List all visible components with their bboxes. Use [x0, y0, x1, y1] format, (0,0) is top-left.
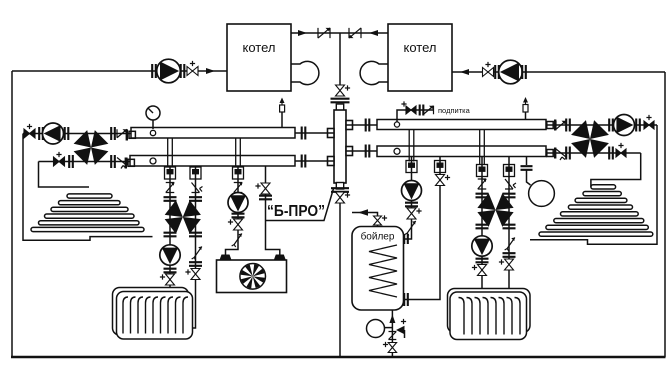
floor heating coil right row 3 [575, 198, 627, 202]
pipe drop fancoil return line [266, 166, 280, 255]
pipe drop DHW return line [404, 157, 441, 300]
floor heating coil right row 8 [539, 232, 653, 236]
valve radiator 1 supply [166, 274, 175, 285]
pipe separator riser [339, 33, 341, 85]
floor heating coil left row 6 [31, 227, 144, 231]
flow arrow from right boiler [369, 30, 378, 36]
flange tank upper port [404, 234, 408, 244]
right manifold end fitting supply [547, 122, 553, 129]
right manifold end fitting return [547, 150, 553, 157]
make-up check valve [424, 106, 434, 115]
make-up valve [406, 106, 416, 114]
floor heating coil right row 6 [554, 219, 644, 223]
mixing valve radiator circuit 1 [165, 200, 183, 217]
burner loop right boiler [360, 61, 388, 84]
svg-text:“Б-ПРО”: “Б-ПРО” [267, 203, 325, 220]
thermometer port on right manifold return [394, 148, 400, 154]
cold water check valve [389, 332, 397, 340]
flange [366, 119, 370, 132]
radiator 1 body [117, 292, 193, 340]
pipe drop supply to DHW circuit [409, 130, 414, 162]
pipe drop supply to radiator circuit 1 [168, 138, 173, 168]
flange [521, 166, 533, 170]
radiator 1 back outline [113, 288, 189, 336]
flange [39, 127, 43, 140]
flange [189, 197, 202, 201]
flange [522, 65, 526, 79]
pressure gauge on left manifold [146, 106, 160, 120]
pipe left return riser [11, 71, 13, 357]
DHW tank (boiler) body [352, 227, 404, 311]
check valve left group supply [117, 129, 127, 138]
valve radiator 2 supply [478, 265, 487, 276]
pump P8 radiator circuit 2 [472, 236, 492, 256]
flange [181, 64, 185, 78]
flange [566, 147, 570, 160]
pipe drop radiator circuit 1 return line [193, 166, 196, 328]
pipe to expansion vessel [527, 170, 531, 185]
left manifold supply bar [131, 128, 295, 139]
pipe drop radiator circuit 2 return line [508, 157, 510, 290]
pipe separator to left manifold supply [295, 132, 334, 134]
stub to heating expansion vessel [526, 157, 528, 166]
DHW outlet arrow line [352, 213, 378, 227]
pipe top-left boiler return [12, 70, 227, 72]
flange [69, 155, 73, 168]
valve DHW return [436, 175, 445, 186]
expansion vessel heating [529, 181, 555, 207]
flange [503, 225, 516, 229]
pipe drop fancoil supply line [226, 166, 239, 255]
flange [476, 259, 489, 263]
floor heating coil left row 5 [39, 221, 140, 225]
fan symbol [240, 264, 266, 290]
left manifold return bar [130, 156, 295, 167]
mixing valve left group [74, 130, 91, 147]
flange [152, 64, 156, 78]
pipe left boiler supply [291, 32, 340, 34]
pipe separator to right manifold return [346, 150, 377, 152]
flange [259, 196, 272, 200]
right manifold supply bar [377, 120, 546, 130]
valve left group supply [24, 129, 35, 138]
valve left group return [54, 157, 65, 166]
flow arrow from left boiler [298, 30, 307, 36]
pipe floor coil left inner inlet [39, 162, 90, 188]
flange [503, 253, 516, 257]
mixing valve right group [571, 120, 590, 139]
pipe separator to left manifold return [295, 160, 334, 162]
safety relief valve cold water [396, 326, 405, 334]
union fitting fancoil supply [233, 167, 244, 179]
pump P6 floor-heating right [614, 115, 635, 136]
pipe drop supply to radiator circuit 2 [480, 130, 485, 166]
valve radiator 2 return [505, 259, 514, 270]
pump P4 radiator circuit 1 [160, 245, 180, 265]
flange [189, 233, 202, 237]
flange separator top [331, 99, 350, 103]
flange [636, 119, 640, 132]
flange tank lower port [404, 293, 408, 306]
balancing valve left group return [117, 158, 127, 169]
valve on boiler-left return [187, 67, 198, 76]
pipe floor coil left outer line [23, 134, 153, 241]
flange [302, 127, 306, 140]
left manifold end fitting supply [129, 131, 135, 138]
flange [189, 262, 202, 266]
radiator 2 back outline [448, 289, 531, 333]
flange [366, 145, 370, 158]
drain valve radiator 2 return [505, 238, 515, 252]
union fitting radiator circuit return [190, 167, 201, 179]
pipe right group return row [546, 152, 641, 154]
separator left port block lower [328, 157, 335, 166]
air vent on right manifold [525, 112, 527, 120]
check valve radiator 2 supply [478, 179, 487, 189]
flange [164, 233, 177, 237]
flange [566, 119, 570, 132]
floor heating coil right row 2 [583, 192, 621, 196]
fancoil unit box [217, 260, 287, 293]
hydraulic separator bottom neck [336, 183, 343, 190]
separator left port block upper [328, 129, 335, 138]
hydraulic separator top neck [336, 104, 343, 111]
svg-text:подпитка: подпитка [438, 106, 471, 115]
flange [476, 225, 489, 229]
pipe separator drain to bottom return [339, 203, 341, 358]
pump P3 floor-heating left [43, 123, 64, 144]
balancing valve radiator circuit return [192, 183, 203, 193]
cold water shutoff valve [388, 343, 396, 353]
check valve right group supply [556, 121, 566, 130]
floor heating coil right row 5 [561, 212, 639, 216]
flow arrow into left boiler [206, 68, 215, 74]
union fitting radiator circuit supply [165, 167, 176, 179]
floor heating coil left row 2 [59, 201, 121, 205]
flange [405, 203, 418, 207]
check valve left boiler supply [318, 28, 330, 38]
floor heating coil left row 4 [45, 214, 135, 218]
pipe drop supply to fancoil circuit [236, 138, 241, 168]
pipe floor coil right inlet [591, 153, 641, 187]
make-up line port [394, 122, 399, 127]
thermometer port on left manifold return [150, 158, 156, 164]
floor heating coil left row 1 [67, 194, 112, 198]
valve fancoil supply [234, 219, 243, 230]
flange [111, 155, 115, 168]
pipe drop radiator circuit 2 supply line [481, 157, 483, 293]
pipe drop radiator circuit 1 supply line [169, 166, 171, 292]
cold water flow arrow into tank [389, 315, 395, 324]
pipe right return riser [664, 72, 666, 357]
valve fancoil return top [261, 183, 270, 194]
pipe bottom common return (thick) [11, 356, 666, 359]
valve DHW supply [407, 208, 416, 219]
drain valve radiator circuit return [192, 247, 202, 261]
flange [495, 65, 499, 79]
flange [164, 269, 177, 273]
pipe drop DHW supply line [404, 157, 412, 240]
svg-text:котел: котел [404, 40, 437, 55]
flange [111, 127, 115, 140]
floor heating coil right row 4 [568, 205, 632, 209]
pipe right boiler supply [340, 32, 388, 34]
separator right port block lower [346, 147, 353, 156]
fancoil foot right [274, 255, 286, 261]
valve above separator [336, 85, 345, 96]
pipe right group supply row [546, 124, 657, 126]
union fitting radiator 2 supply [477, 165, 488, 177]
pump P2 boiler-right return [499, 60, 523, 84]
flange [609, 119, 613, 132]
flow arrow into right boiler [460, 69, 469, 75]
pipe separator to right manifold supply [346, 124, 377, 126]
flange [609, 147, 613, 160]
valve on boiler-right return [483, 68, 494, 77]
balancing valve right group return [556, 149, 566, 160]
boiler right (kotel) [388, 24, 452, 91]
check valve DHW supply [405, 221, 416, 236]
flange [164, 197, 177, 201]
burner loop left boiler [291, 61, 319, 84]
svg-text:бойлер: бойлер [361, 231, 395, 243]
valve radiator 1 return [191, 269, 200, 280]
check valve radiator circuit supply [166, 183, 175, 193]
boiler left (kotel) [227, 24, 291, 91]
safety valve fancoil [232, 234, 242, 248]
svg-text:котел: котел [243, 40, 276, 55]
make-up line pipe [397, 110, 434, 122]
pump P7 DHW loading [402, 181, 422, 201]
floor heating coil right row 1 [591, 185, 616, 189]
pipe floor coil right outer return [530, 125, 657, 244]
flange [503, 194, 516, 198]
left manifold end fitting return [128, 159, 134, 166]
flange [232, 214, 245, 218]
flange [65, 127, 69, 140]
cold water inlet pipe [391, 310, 393, 357]
union fitting DHW supply [406, 161, 417, 173]
tank heating coil zigzag [369, 245, 397, 297]
floor heating coil left row 3 [51, 207, 128, 211]
right manifold return bar [377, 146, 546, 157]
flange [302, 155, 306, 168]
union fitting radiator 2 return [504, 165, 515, 177]
separator right port block upper [346, 121, 353, 130]
flange [476, 194, 489, 198]
floor heating coil right row 7 [546, 225, 648, 229]
valve below separator [336, 192, 345, 203]
DHW recirculation valve [374, 216, 382, 225]
pipe left group return row [39, 161, 131, 163]
air vent on left manifold [281, 112, 283, 128]
pipe top-right boiler return [452, 71, 665, 73]
union fitting DHW return [435, 161, 446, 173]
flange separator bottom [331, 188, 349, 192]
fancoil foot left [220, 255, 232, 261]
radiator 1 fins [123, 297, 188, 334]
hydraulic separator body [334, 110, 346, 183]
valve right group supply [644, 121, 654, 129]
label B-PRO callout line [266, 189, 334, 221]
balancing valve radiator 2 return [505, 179, 516, 189]
pipe left group supply row [23, 133, 131, 135]
valve right group return [616, 149, 626, 157]
flange [420, 105, 424, 116]
expansion vessel DHW [367, 320, 385, 338]
pump P1 boiler-left return [157, 59, 181, 83]
radiator 2 body [450, 292, 527, 340]
pump P5 fancoil [228, 193, 248, 213]
check valve fancoil supply [234, 183, 243, 193]
radiator 2 fins [459, 298, 521, 335]
mixing valve radiator circuit 2 [477, 193, 495, 210]
check valve right boiler supply [349, 28, 361, 38]
